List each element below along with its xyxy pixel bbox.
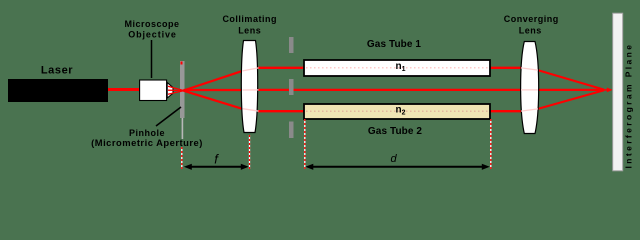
gas tube 1 <box>304 60 490 76</box>
svg-text:Gas Tube 1: Gas Tube 1 <box>367 39 422 50</box>
label pointer line Pinhole <box>156 107 181 126</box>
label pointer line Microscope Objective <box>151 40 153 78</box>
dimension d arrow line <box>311 166 484 168</box>
faint beams inside converging lens <box>521 68 538 111</box>
svg-text:Collimating: Collimating <box>222 14 277 24</box>
wire beams converging to focus <box>537 70 605 109</box>
node focus point connector <box>603 89 608 91</box>
guide dashed line below collimating lens <box>249 135 251 169</box>
collimating lens L1 <box>241 41 257 133</box>
gray dashed reference line segments <box>289 37 294 138</box>
svg-text:(Micrometric Aperture): (Micrometric Aperture) <box>91 137 203 148</box>
wire beam lower horizontal <box>258 110 523 112</box>
guide dashed line below tube left <box>304 119 306 169</box>
wire beam center horizontal <box>243 89 604 91</box>
red dot on pinhole top <box>181 62 183 65</box>
wire diverging rays pinhole to collimating lens <box>184 70 246 110</box>
svg-text:Lens: Lens <box>519 25 542 35</box>
faint dashed beam inside tube 1 <box>306 67 488 69</box>
svg-text:Converging: Converging <box>504 14 559 24</box>
faint beams inside collimating lens <box>243 68 259 111</box>
svg-text:d: d <box>390 153 397 165</box>
svg-text:Laser: Laser <box>41 65 73 77</box>
svg-text:Gas Tube 2: Gas Tube 2 <box>368 126 423 137</box>
svg-text:Objective: Objective <box>128 30 177 40</box>
pinhole plate <box>180 61 185 118</box>
wire beam upper horizontal <box>258 67 523 69</box>
faint dashed beam inside tube 2 <box>306 110 488 112</box>
guide dashed line below tube right <box>490 119 492 169</box>
interferogram plane <box>613 13 623 171</box>
laser body <box>8 79 108 102</box>
wire beam laser to objective <box>108 88 139 91</box>
microscope objective nose <box>167 83 173 99</box>
microscope objective U1 body <box>140 80 167 101</box>
svg-text:Microscope: Microscope <box>124 19 179 29</box>
wire rays objective tip to pinhole waist <box>168 86 184 94</box>
gas tube 2 <box>304 104 490 119</box>
node focus arrowhead at plane <box>607 88 613 93</box>
dimension f arrow line <box>190 166 243 168</box>
svg-text:Lens: Lens <box>238 25 261 35</box>
guide dashed line below pinhole <box>181 147 183 169</box>
svg-text:Interferogram Plane: Interferogram Plane <box>624 43 634 169</box>
converging lens L2 <box>521 42 539 134</box>
pinhole plate thin lower part <box>182 118 184 139</box>
